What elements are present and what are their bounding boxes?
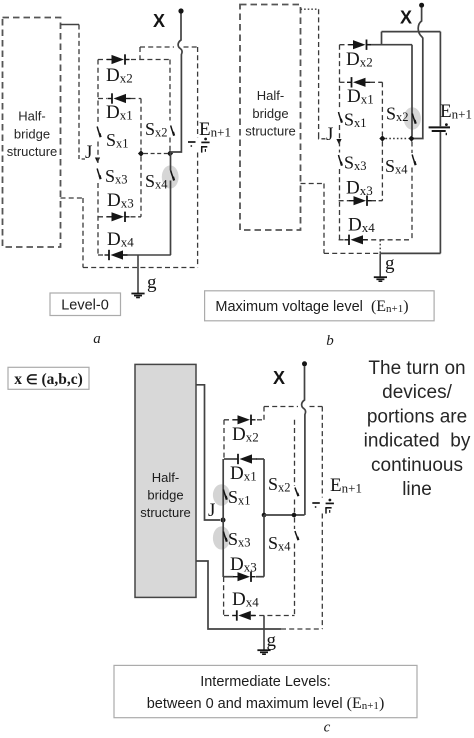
svg-text:portions are: portions are <box>367 406 467 427</box>
diode Dx2 (a) <box>107 54 130 64</box>
wire: Sx2 column conducting (b) <box>411 45 413 136</box>
highlight ellipse on Sx3 (c) <box>213 526 230 549</box>
wire: middle column (b) <box>381 82 383 200</box>
diode Dx3 (b) <box>349 196 372 206</box>
svg-text:Intermediate Levels:: Intermediate Levels: <box>200 674 331 690</box>
half-bridge structure box (c), filled <box>135 364 196 597</box>
svg-text:X: X <box>273 368 285 388</box>
svg-text:Maximum voltage level (En+1): Maximum voltage level (En+1) <box>215 298 408 315</box>
wire: half-bridge to bottom rail, conducting (c) <box>196 561 281 629</box>
switch Sx1 (c), turned on <box>223 490 226 500</box>
svg-text:continuous: continuous <box>371 455 463 476</box>
svg-text:X: X <box>400 8 412 28</box>
diode Dx3 (c) <box>233 572 256 582</box>
wire: ground connection dotted (b) <box>379 240 381 253</box>
switch Sx2 (b), turned on <box>412 114 415 124</box>
svg-text:Half-: Half- <box>152 470 179 485</box>
wire: half-bridge to J (a) <box>61 25 86 160</box>
switch Sx4 (a), turned on <box>171 154 175 181</box>
wire: upper left column segment (c) <box>223 420 225 459</box>
switch Sx3 (c), turned on <box>223 532 226 542</box>
svg-text:g: g <box>385 253 395 274</box>
switch Sx4 (c) <box>295 531 298 540</box>
diode Dx3 (a) <box>107 212 130 222</box>
node J (b) <box>326 124 342 145</box>
wire: rail to Dx2 row (b) <box>381 32 383 45</box>
svg-text:a: a <box>93 331 101 347</box>
node J (a) <box>85 142 100 163</box>
svg-text:X: X <box>153 11 165 31</box>
wire: left column conducting (c) <box>222 459 224 577</box>
wire: g rail conducting (b) <box>380 252 440 254</box>
wire: top rail conducting (b) <box>382 31 441 33</box>
half-bridge structure box (a) <box>3 18 61 248</box>
svg-text:J: J <box>85 142 92 163</box>
caption box Maximum voltage level (b) <box>205 291 435 321</box>
wire: middle column lower conducting (c) <box>263 515 265 577</box>
node X terminal (c) <box>273 361 307 388</box>
switch Sx4 (b) <box>412 142 416 240</box>
svg-text:J: J <box>326 124 333 145</box>
diode Dx1 (b) <box>347 77 370 87</box>
caption box Intermediate Levels (c) <box>114 665 417 717</box>
wire: X lead with crossing jog (b) <box>414 8 423 139</box>
wire: Sx2 column (a) <box>169 60 171 151</box>
wire: Dx3 row conducting (c) <box>224 576 264 578</box>
svg-text:Level-0: Level-0 <box>61 298 109 314</box>
diode Dx4 (c) <box>232 610 255 620</box>
diode Dx4 (a) <box>105 250 128 260</box>
wire: Sx2 column (c) <box>294 420 296 513</box>
svg-text:J: J <box>208 500 215 521</box>
wire: Dx3 row (b) <box>339 200 383 202</box>
wire: bottom rail with Dx4 (a) <box>98 254 171 256</box>
node J (c) <box>208 500 226 523</box>
wire: Dx4 row (b) <box>339 239 412 241</box>
node row conducting (c) <box>264 513 305 518</box>
wire: middle column conducting (c) <box>263 459 265 515</box>
wire: Dx1 row (a) <box>98 98 141 100</box>
wire: ground drop (c) <box>263 616 265 651</box>
svg-text:c: c <box>324 720 331 734</box>
wire: Dx2 top rail (a) <box>98 59 170 61</box>
switch Sx2 (c) <box>295 488 298 497</box>
svg-text:Half-: Half- <box>18 109 45 124</box>
diode Dx2 (b) <box>349 40 372 50</box>
switch Sx2 (a) <box>171 126 174 136</box>
highlight ellipse on Sx4 (a) <box>162 165 179 188</box>
battery En+1 (c) <box>312 499 334 514</box>
wire: Sx4 to bottom rail, conducting (a) <box>170 181 172 256</box>
ground (b) <box>374 277 387 281</box>
wire: ground drop (a) <box>137 255 139 293</box>
wire: Sx4 column (c) <box>294 518 296 616</box>
svg-text:structure: structure <box>7 144 58 159</box>
node X terminal (a) <box>153 8 184 31</box>
wire: Dx1 row conducting (c) <box>224 458 264 460</box>
svg-text:indicated by: indicated by <box>364 431 471 452</box>
diode Dx4 (b) <box>345 235 368 245</box>
wire: Dx1 row (b) <box>340 81 383 83</box>
wire: Dx2 top rail (c) <box>224 419 264 421</box>
wire: half-bridge to bottom rail (a) <box>61 198 84 268</box>
switch Sx3 (b) <box>339 155 342 166</box>
svg-text:structure: structure <box>140 505 191 520</box>
node X terminal (b) <box>400 3 424 28</box>
svg-text:b: b <box>326 333 334 349</box>
ground (c) <box>257 650 270 654</box>
svg-text:Half-: Half- <box>257 88 284 103</box>
outer level boundary (a) <box>83 47 198 268</box>
wire: Dx2 row (b) <box>340 44 413 46</box>
wire: left column (b) <box>339 45 341 240</box>
switch Sx1 (a) <box>97 127 100 138</box>
switch Sx1 (b) <box>339 112 342 123</box>
svg-text:The turn on: The turn on <box>368 358 465 379</box>
highlight ellipse on Sx1 (c) <box>213 484 230 506</box>
svg-text:g: g <box>267 630 277 651</box>
node row with junction diamonds (a) <box>138 150 173 156</box>
wire: left column (a) <box>97 60 99 256</box>
wire: half-bridge to J (b) <box>301 9 329 139</box>
side note text <box>364 358 471 500</box>
node row dotted with junction diamonds (b) <box>379 135 414 141</box>
battery En+1 (b), conducting <box>429 32 450 254</box>
wire: X lead conducting (c) <box>302 366 306 515</box>
wire: half-bridge to J, conducting (c) <box>196 385 220 520</box>
svg-text:between 0 and maximum level (E: between 0 and maximum level (En+1) <box>147 695 385 712</box>
svg-text:devices/: devices/ <box>382 382 452 403</box>
wire: Dx3 row (a) <box>98 216 141 218</box>
diode Dx2 (c) <box>233 415 256 425</box>
node (c) left <box>262 513 267 518</box>
wire: ground drop (b) <box>379 253 381 277</box>
wire: Dx4 row (c) <box>224 615 295 617</box>
svg-text:structure: structure <box>245 124 296 139</box>
outer level boundary (c) <box>264 407 322 630</box>
svg-text:x ∈ (a,b,c): x ∈ (a,b,c) <box>14 371 83 388</box>
wire: lower left column segment (c) <box>223 577 225 616</box>
ground (a) <box>131 294 144 298</box>
note box x in (a,b,c) <box>8 367 89 389</box>
wire: X lead with crossing jog (a) <box>171 14 183 154</box>
svg-text:bridge: bridge <box>252 106 288 121</box>
svg-text:bridge: bridge <box>14 127 50 142</box>
caption box Level-0 (a) <box>50 293 121 316</box>
highlight ellipse on Sx2 (b) <box>404 107 421 129</box>
battery En+1 (a) <box>188 138 210 153</box>
svg-text:g: g <box>147 272 157 293</box>
diode Dx1 (a) <box>108 93 131 103</box>
half-bridge structure box (b) <box>240 5 301 231</box>
diode Dx1 (c) <box>234 454 257 464</box>
switch Sx3 (a) <box>97 169 100 180</box>
svg-text:line: line <box>402 479 432 500</box>
svg-text:bridge: bridge <box>147 488 183 503</box>
wire: half-bridge to bottom boundary (b) <box>301 184 380 254</box>
wire: middle column (a) <box>140 99 142 217</box>
